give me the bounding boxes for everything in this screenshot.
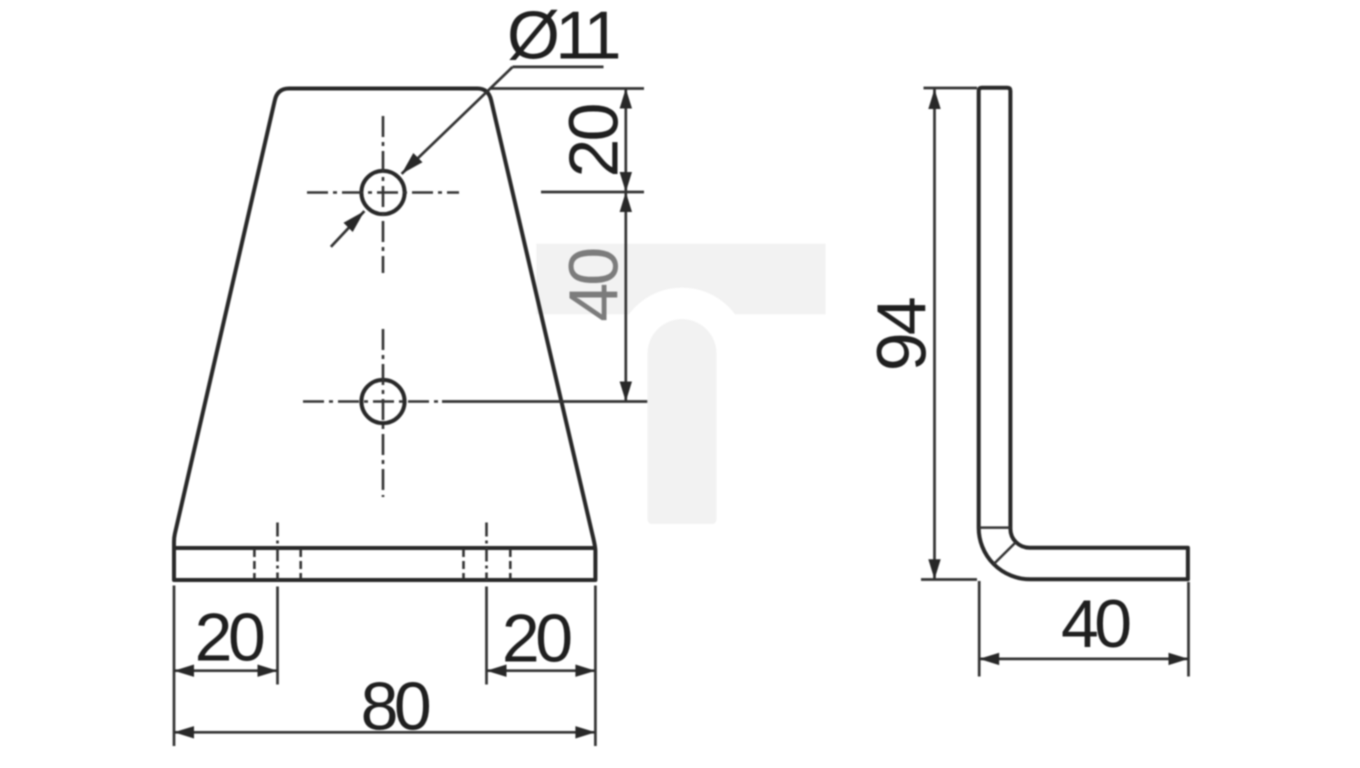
svg-text:40: 40 [555, 249, 633, 322]
svg-text:20: 20 [555, 105, 633, 178]
svg-text:20: 20 [195, 600, 264, 676]
svg-text:Ø11: Ø11 [507, 0, 619, 74]
svg-text:80: 80 [361, 668, 430, 744]
svg-text:94: 94 [863, 298, 941, 371]
svg-text:20: 20 [502, 601, 571, 677]
svg-text:40: 40 [1061, 586, 1130, 662]
